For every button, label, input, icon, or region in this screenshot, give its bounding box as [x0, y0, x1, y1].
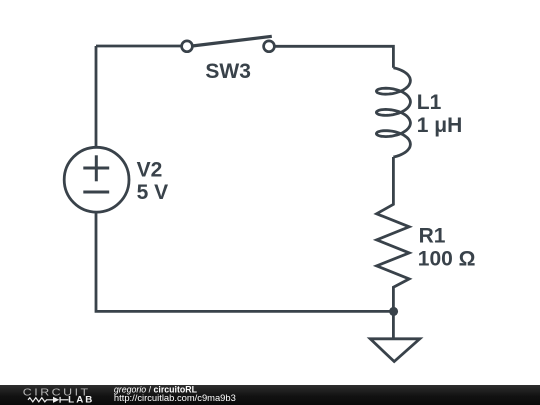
- svg-text:1 μH: 1 μH: [417, 114, 463, 137]
- svg-text:SW3: SW3: [205, 60, 251, 83]
- svg-text:5 V: 5 V: [137, 181, 169, 204]
- svg-text:L1: L1: [417, 91, 442, 114]
- svg-text:V2: V2: [137, 158, 163, 181]
- svg-text:LAB: LAB: [68, 394, 94, 405]
- svg-text:100 Ω: 100 Ω: [418, 248, 476, 271]
- svg-text:R1: R1: [419, 225, 446, 248]
- svg-text:http://circuitlab.com/c9ma9b3: http://circuitlab.com/c9ma9b3: [114, 392, 236, 403]
